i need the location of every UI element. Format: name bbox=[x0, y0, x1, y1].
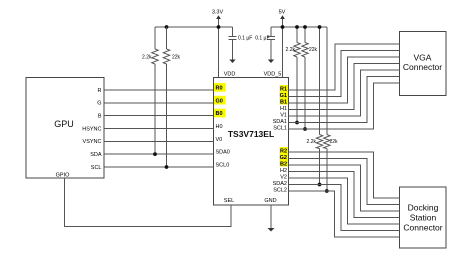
svg-text:VDD: VDD bbox=[224, 72, 236, 78]
svg-text:2.2k: 2.2k bbox=[286, 47, 296, 53]
svg-text:SCL2: SCL2 bbox=[273, 188, 287, 194]
svg-text:V2: V2 bbox=[280, 175, 287, 181]
wire R (GPU to IC) bbox=[104, 89, 214, 91]
svg-text:5V: 5V bbox=[279, 10, 286, 16]
wire V1 to VGA bbox=[289, 70, 400, 116]
svg-text:H1: H1 bbox=[280, 106, 287, 112]
highlight G2 bbox=[280, 154, 289, 161]
resistor 2.2k (SDA2 pull-up to 5V) bbox=[319, 27, 321, 135]
svg-text:B0: B0 bbox=[216, 111, 223, 117]
IC TS3V713EL box bbox=[214, 78, 289, 206]
node rail/22k junction bbox=[165, 25, 169, 29]
svg-text:GND: GND bbox=[264, 198, 276, 204]
wire B2 to docking bbox=[289, 165, 400, 211]
node 5V rail R3 junction bbox=[295, 25, 299, 29]
wire HSYNC bbox=[104, 128, 214, 130]
svg-text:VGA: VGA bbox=[414, 53, 432, 63]
highlight B1 bbox=[280, 98, 289, 105]
svg-text:GPU: GPU bbox=[54, 119, 74, 129]
node 5V junction bbox=[281, 25, 285, 29]
wire B bbox=[104, 115, 214, 117]
highlight R2 bbox=[280, 147, 289, 154]
wire VDD drop bbox=[218, 27, 220, 78]
wire SCL1 to VGA bbox=[289, 83, 400, 129]
svg-text:R: R bbox=[98, 88, 102, 94]
svg-text:GPIO: GPIO bbox=[56, 173, 70, 179]
highlight B2 bbox=[280, 160, 289, 167]
wire SDA1 to VGA bbox=[289, 77, 400, 123]
svg-text:V0: V0 bbox=[216, 137, 223, 143]
capacitor 0.1uF (3.3V bypass) bbox=[232, 27, 234, 37]
wire G2 to docking bbox=[289, 159, 400, 205]
svg-text:SEL: SEL bbox=[224, 198, 234, 204]
node 5V rail R4 junction bbox=[303, 25, 307, 29]
svg-text:R1: R1 bbox=[280, 87, 287, 93]
node 5V rail R5 junction bbox=[318, 25, 322, 29]
svg-text:SDA2: SDA2 bbox=[273, 181, 287, 187]
svg-text:0.1 µF: 0.1 µF bbox=[238, 36, 252, 42]
highlight G1 bbox=[280, 92, 289, 99]
wire H2 to docking bbox=[289, 172, 400, 218]
svg-text:V1: V1 bbox=[280, 113, 287, 119]
svg-text:G1: G1 bbox=[280, 93, 287, 99]
node SDA1 junction bbox=[295, 121, 299, 125]
wire GND drop bbox=[270, 205, 272, 228]
node SCL2 junction bbox=[325, 189, 329, 193]
wire G bbox=[104, 102, 214, 104]
svg-text:SDA: SDA bbox=[90, 152, 102, 158]
svg-text:SCL: SCL bbox=[91, 165, 102, 171]
svg-text:Connector: Connector bbox=[403, 62, 442, 72]
svg-text:HSYNC: HSYNC bbox=[82, 126, 101, 132]
svg-text:22k: 22k bbox=[330, 139, 339, 145]
wire V2 to docking bbox=[289, 178, 400, 224]
resistor 22k (SCL pull-up to 3.3V) bbox=[166, 27, 168, 49]
wire VSYNC bbox=[104, 140, 214, 142]
svg-text:22k: 22k bbox=[309, 47, 318, 53]
resistor 22k (SCL2 pull-up to 5V) bbox=[326, 27, 328, 135]
svg-text:R0: R0 bbox=[216, 86, 223, 92]
svg-text:2.2k: 2.2k bbox=[307, 139, 317, 145]
wire VDD_5 drop bbox=[282, 27, 284, 78]
wire R1 to VGA bbox=[289, 44, 400, 90]
svg-text:SDA1: SDA1 bbox=[273, 119, 287, 125]
Docking Station Connector box bbox=[400, 187, 447, 248]
ground (3.3V cap) bbox=[229, 60, 235, 64]
svg-text:Station: Station bbox=[410, 213, 437, 223]
highlight R1 bbox=[280, 85, 289, 92]
wire SDA2 to docking bbox=[289, 185, 400, 231]
node 3.3V junction bbox=[217, 25, 221, 29]
wire R2 to docking bbox=[289, 152, 400, 198]
node SCL1 junction bbox=[303, 127, 307, 131]
highlight R0 bbox=[214, 83, 226, 92]
3.3V rail wire bbox=[155, 26, 233, 28]
node SCL junction bbox=[165, 165, 169, 169]
wire SCL bbox=[104, 166, 214, 168]
node SDA junction bbox=[153, 152, 157, 156]
svg-text:SDA0: SDA0 bbox=[216, 150, 230, 156]
5V rail wire bbox=[271, 26, 327, 28]
wire GPIO to SEL bbox=[65, 178, 232, 227]
svg-text:Connector: Connector bbox=[403, 223, 442, 233]
svg-text:VSYNC: VSYNC bbox=[83, 139, 102, 145]
svg-text:22k: 22k bbox=[172, 55, 181, 61]
GPU box bbox=[26, 78, 104, 179]
svg-text:0.1 µF: 0.1 µF bbox=[255, 36, 269, 42]
capacitor 0.1uF (5V bypass) bbox=[270, 27, 272, 37]
highlight G0 bbox=[214, 96, 226, 105]
VGA Connector box bbox=[400, 32, 447, 96]
resistor 22k (SCL1 pull-up to 5V) bbox=[304, 27, 306, 43]
highlight B0 bbox=[214, 109, 226, 118]
ground (GND pin) bbox=[268, 228, 275, 232]
svg-text:2.2k: 2.2k bbox=[142, 55, 152, 61]
svg-text:3.3V: 3.3V bbox=[212, 10, 224, 16]
svg-text:Docking: Docking bbox=[408, 203, 439, 213]
svg-text:G2: G2 bbox=[280, 155, 287, 161]
resistor 2.2k (SDA pull-up to 3.3V) bbox=[154, 27, 156, 49]
svg-text:B2: B2 bbox=[280, 162, 287, 168]
5V supply arrow bbox=[282, 19, 284, 27]
wire SDA bbox=[104, 153, 214, 155]
svg-text:H2: H2 bbox=[280, 168, 287, 174]
ground (5V cap) bbox=[268, 60, 274, 64]
svg-text:SCL0: SCL0 bbox=[216, 163, 230, 169]
svg-text:B1: B1 bbox=[280, 100, 287, 106]
wire G1 to VGA bbox=[289, 51, 400, 97]
wire B1 to VGA bbox=[289, 57, 400, 103]
node SDA2 junction bbox=[318, 183, 322, 187]
svg-text:G: G bbox=[97, 101, 101, 107]
resistor 2.2k (SDA1 pull-up to 5V) bbox=[296, 27, 298, 43]
svg-text:B: B bbox=[98, 114, 102, 120]
svg-text:TS3V713EL: TS3V713EL bbox=[228, 129, 274, 139]
svg-text:H0: H0 bbox=[216, 124, 223, 130]
3.3V supply arrow bbox=[218, 19, 220, 27]
svg-text:R2: R2 bbox=[280, 149, 287, 155]
svg-text:VDD_5: VDD_5 bbox=[264, 72, 282, 78]
wire H1 to VGA bbox=[289, 64, 400, 110]
wire SCL2 to docking bbox=[289, 191, 400, 237]
svg-text:SCL1: SCL1 bbox=[273, 126, 287, 132]
svg-text:G0: G0 bbox=[216, 98, 223, 104]
